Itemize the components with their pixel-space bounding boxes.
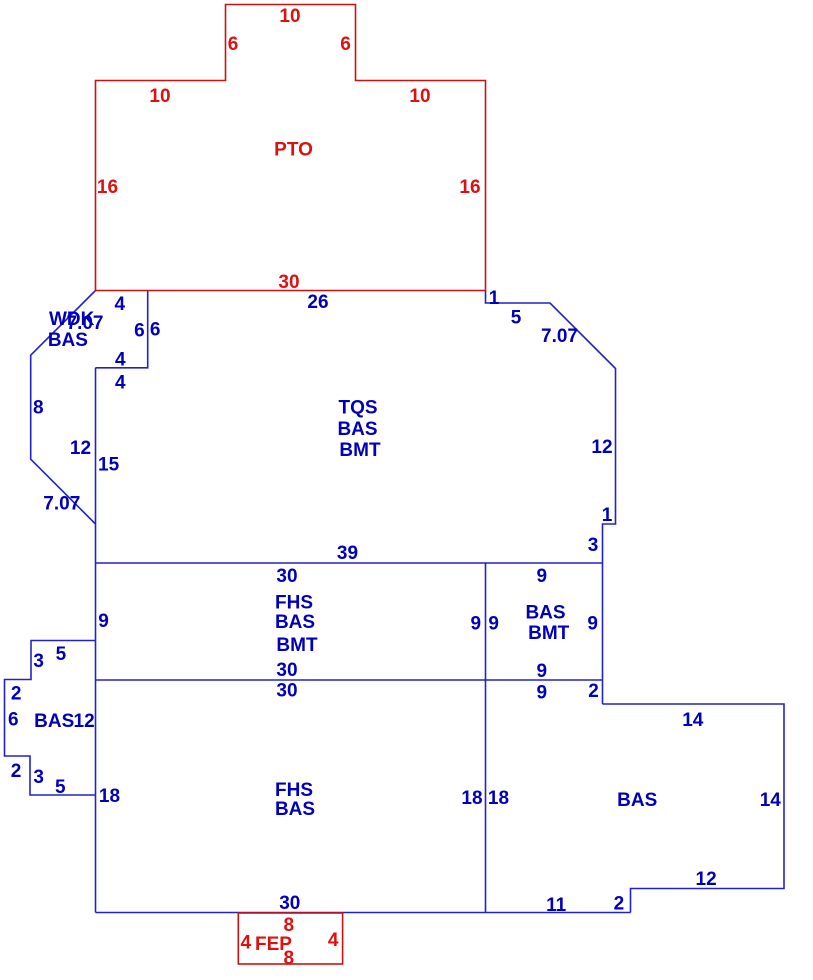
svg-text:FHS: FHS: [275, 780, 313, 801]
svg-text:14: 14: [760, 790, 782, 811]
svg-text:12: 12: [696, 869, 717, 890]
svg-text:4: 4: [115, 350, 126, 371]
svg-text:2: 2: [588, 681, 599, 702]
svg-text:12: 12: [74, 711, 95, 732]
svg-text:BAS: BAS: [34, 711, 74, 732]
svg-text:26: 26: [307, 292, 328, 313]
svg-text:18: 18: [99, 786, 120, 807]
svg-text:BAS: BAS: [275, 799, 315, 820]
svg-text:2: 2: [11, 684, 22, 705]
svg-text:30: 30: [276, 566, 297, 587]
svg-text:14: 14: [682, 710, 704, 731]
svg-text:TQS: TQS: [338, 398, 377, 419]
svg-text:9: 9: [471, 614, 482, 635]
svg-text:9: 9: [537, 661, 548, 682]
svg-text:6: 6: [228, 34, 239, 55]
svg-text:10: 10: [279, 6, 300, 27]
svg-text:5: 5: [55, 777, 66, 798]
svg-text:7.07: 7.07: [541, 326, 578, 347]
svg-text:3: 3: [33, 651, 44, 672]
svg-text:9: 9: [587, 614, 598, 635]
svg-text:8: 8: [33, 398, 44, 419]
svg-text:4: 4: [115, 373, 126, 394]
svg-text:5: 5: [56, 644, 67, 665]
svg-text:BAS: BAS: [48, 330, 88, 351]
svg-text:10: 10: [409, 86, 430, 107]
svg-text:BAS: BAS: [275, 612, 315, 633]
svg-text:9: 9: [537, 566, 548, 587]
svg-text:12: 12: [591, 437, 612, 458]
svg-text:PTO: PTO: [274, 140, 313, 161]
svg-text:30: 30: [278, 272, 299, 293]
svg-text:BMT: BMT: [339, 440, 381, 461]
svg-text:BAS: BAS: [525, 603, 565, 624]
svg-text:9: 9: [488, 614, 499, 635]
svg-text:39: 39: [337, 543, 358, 564]
svg-text:8: 8: [284, 948, 295, 969]
svg-text:BMT: BMT: [276, 635, 318, 656]
svg-text:9: 9: [98, 611, 109, 632]
svg-text:18: 18: [461, 788, 482, 809]
svg-text:7.07: 7.07: [43, 494, 80, 515]
svg-text:16: 16: [459, 177, 480, 198]
svg-text:8: 8: [284, 915, 295, 936]
svg-text:12: 12: [70, 438, 91, 459]
svg-text:30: 30: [276, 681, 297, 702]
svg-text:1: 1: [489, 288, 500, 309]
svg-text:BAS: BAS: [337, 419, 377, 440]
svg-text:16: 16: [97, 177, 118, 198]
svg-text:6: 6: [134, 321, 145, 342]
svg-text:6: 6: [150, 320, 161, 341]
svg-text:4: 4: [241, 933, 252, 954]
svg-text:4: 4: [328, 930, 339, 951]
svg-text:15: 15: [98, 455, 120, 476]
svg-text:BAS: BAS: [617, 790, 657, 811]
svg-text:6: 6: [340, 34, 351, 55]
svg-text:10: 10: [149, 86, 170, 107]
svg-text:2: 2: [614, 894, 625, 915]
svg-text:30: 30: [276, 660, 297, 681]
svg-text:9: 9: [537, 683, 548, 704]
svg-text:3: 3: [33, 767, 44, 788]
svg-text:18: 18: [488, 788, 509, 809]
svg-text:1: 1: [602, 505, 613, 526]
svg-text:6: 6: [8, 710, 19, 731]
svg-text:2: 2: [11, 761, 22, 782]
svg-text:11: 11: [546, 895, 567, 916]
svg-text:BMT: BMT: [528, 623, 570, 644]
svg-text:FHS: FHS: [275, 593, 313, 614]
svg-text:3: 3: [588, 535, 599, 556]
svg-text:30: 30: [279, 893, 300, 914]
svg-text:5: 5: [511, 308, 522, 329]
svg-text:4: 4: [115, 294, 126, 315]
